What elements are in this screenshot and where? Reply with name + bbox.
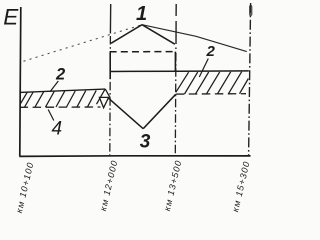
svg-text:2: 2 — [206, 43, 216, 60]
solid lower level line km12 to km15.3 — [110, 70, 249, 73]
diagonal of line 1 (right side) — [142, 25, 247, 52]
step vertical at km 13+500 — [174, 52, 176, 72]
leader from label 1 to right peak — [142, 25, 175, 45]
svg-text:км 15+300: км 15+300 — [230, 160, 251, 213]
svg-text:км 10+100: км 10+100 — [14, 161, 35, 214]
station line km 15+300 (dash-dot) — [249, 3, 251, 155]
short edge closing left band tip — [105, 89, 110, 97]
V-shaped line 3 right leg — [143, 94, 176, 128]
svg-text:км 13+500: км 13+500 — [162, 159, 183, 212]
smudge at top of km 15+300 line — [249, 5, 252, 16]
station line km 12+000 (dash-dot) — [109, 4, 111, 34]
leader from label 2 (right) to band — [199, 59, 208, 78]
leader from label 4 to band bottom — [48, 110, 54, 121]
svg-text:км 12+000: км 12+000 — [98, 159, 119, 212]
V-shaped line 3 left leg — [109, 98, 144, 129]
dotted diagonal of line 1 (left side) — [24, 25, 143, 62]
svg-text:4: 4 — [52, 119, 63, 140]
hatched band 2 (left) dashed bottom edge — [20, 106, 101, 108]
step vertical at km 12+000 — [109, 53, 111, 80]
svg-text:1: 1 — [136, 3, 147, 25]
hatched band 2 (left) hatching — [20, 90, 105, 108]
hatched band 2 (right) hatching — [176, 72, 249, 94]
svg-text:E: E — [3, 4, 19, 29]
leader from label 1 to left peak — [111, 25, 142, 44]
hatched band 2 (left) top edge — [20, 89, 106, 92]
hatched band 2 (right) dashed bottom edge — [176, 93, 246, 95]
svg-text:2: 2 — [55, 66, 65, 84]
leader from label 2 (left) to band — [50, 81, 58, 92]
station line km 13+500 (dash-dot) — [175, 4, 177, 49]
svg-text:3: 3 — [140, 132, 151, 153]
bottom frame line — [19, 155, 250, 158]
dashed upper level line between km12 and km13.5 — [110, 51, 176, 53]
triangle mark at right tip of left band — [99, 97, 108, 107]
left axis (ordinate) — [20, 7, 21, 156]
